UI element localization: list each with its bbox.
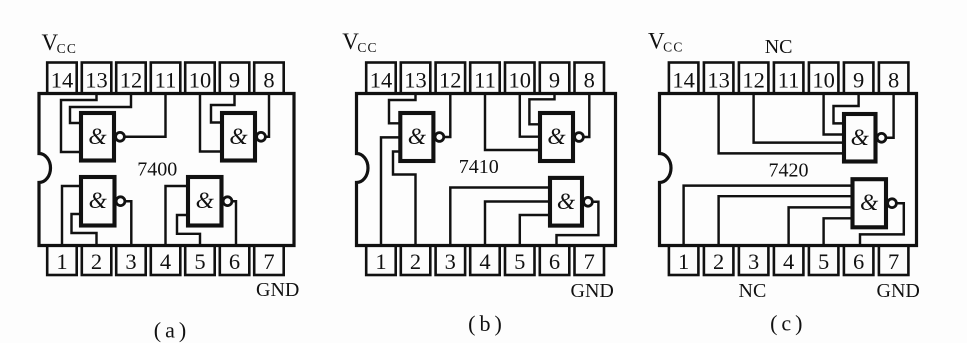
svg-text:9: 9 [229,67,240,92]
svg-text:4: 4 [479,249,490,274]
svg-text:14: 14 [51,67,74,92]
svg-text:10: 10 [812,67,835,92]
svg-text:2: 2 [410,249,421,274]
svg-text:11: 11 [474,67,496,92]
svg-text:VCC: VCC [648,29,684,55]
svg-text:7: 7 [888,249,899,274]
svg-text:&: & [557,189,576,215]
svg-text:9: 9 [853,67,864,92]
svg-text:6: 6 [853,249,864,274]
svg-text:NC: NC [765,36,793,58]
svg-text:3: 3 [125,249,136,274]
svg-text:6: 6 [229,249,240,274]
svg-text:(c): (c) [770,311,806,336]
svg-text:7410: 7410 [459,156,499,178]
svg-text:5: 5 [514,249,525,274]
svg-text:1: 1 [56,249,67,274]
svg-text:14: 14 [672,67,695,92]
svg-text:VCC: VCC [342,29,378,55]
svg-text:GND: GND [571,280,614,302]
svg-text:13: 13 [707,67,730,92]
svg-text:(a): (a) [154,318,190,343]
svg-text:6: 6 [549,249,560,274]
svg-text:&: & [408,124,427,150]
svg-text:10: 10 [189,67,212,92]
svg-text:5: 5 [194,249,205,274]
svg-text:&: & [851,125,870,151]
svg-text:1: 1 [375,249,386,274]
svg-text:2: 2 [91,249,102,274]
svg-text:GND: GND [256,279,299,301]
svg-text:12: 12 [120,67,143,92]
svg-text:8: 8 [263,67,274,92]
svg-text:8: 8 [584,67,595,92]
svg-text:&: & [860,190,879,216]
svg-text:(b): (b) [468,311,506,336]
svg-text:5: 5 [818,249,829,274]
svg-text:9: 9 [549,67,560,92]
svg-text:&: & [547,124,566,150]
svg-text:7400: 7400 [137,159,177,181]
svg-text:8: 8 [888,67,899,92]
svg-text:14: 14 [370,67,393,92]
svg-text:GND: GND [877,280,920,302]
svg-text:NC: NC [739,280,767,302]
svg-text:12: 12 [439,67,462,92]
svg-text:1: 1 [678,249,689,274]
svg-text:VCC: VCC [42,30,78,56]
svg-text:2: 2 [713,249,724,274]
svg-text:11: 11 [155,67,177,92]
svg-text:3: 3 [445,249,456,274]
svg-text:13: 13 [85,67,108,92]
svg-text:3: 3 [748,249,759,274]
svg-text:12: 12 [742,67,765,92]
svg-text:&: & [229,124,248,150]
svg-text:7: 7 [263,249,274,274]
svg-text:4: 4 [783,249,794,274]
svg-text:10: 10 [509,67,532,92]
svg-text:&: & [196,188,215,214]
svg-text:&: & [88,124,107,150]
svg-text:11: 11 [778,67,800,92]
svg-text:&: & [89,188,108,214]
svg-text:7: 7 [584,249,595,274]
svg-text:13: 13 [404,67,427,92]
svg-text:7420: 7420 [769,160,809,182]
svg-text:4: 4 [160,249,171,274]
